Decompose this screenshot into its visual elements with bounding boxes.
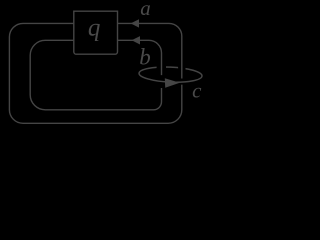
- erase top arc behind inner wire: [157, 63, 166, 72]
- wire inner loop main: [30, 40, 161, 110]
- arrowhead b (into box): [132, 36, 140, 44]
- arrowhead c (on ellipse bottom arc): [165, 78, 180, 88]
- arrowhead a (into box): [131, 19, 139, 27]
- wire outer loop main: [9, 23, 181, 123]
- svg-text:a: a: [140, 0, 151, 20]
- ellipse c (rotation indicator around right wires): [139, 66, 203, 84]
- box q (open pouch with rounded bottom corners): [74, 11, 118, 54]
- erase top arc behind outer wire: [178, 62, 185, 72]
- wire outer loop upper-right segment: [118, 23, 182, 78]
- svg-text:c: c: [192, 79, 202, 103]
- svg-text:q: q: [88, 14, 101, 41]
- svg-text:b: b: [139, 45, 151, 70]
- wire inner loop upper-right segment: [118, 40, 162, 75]
